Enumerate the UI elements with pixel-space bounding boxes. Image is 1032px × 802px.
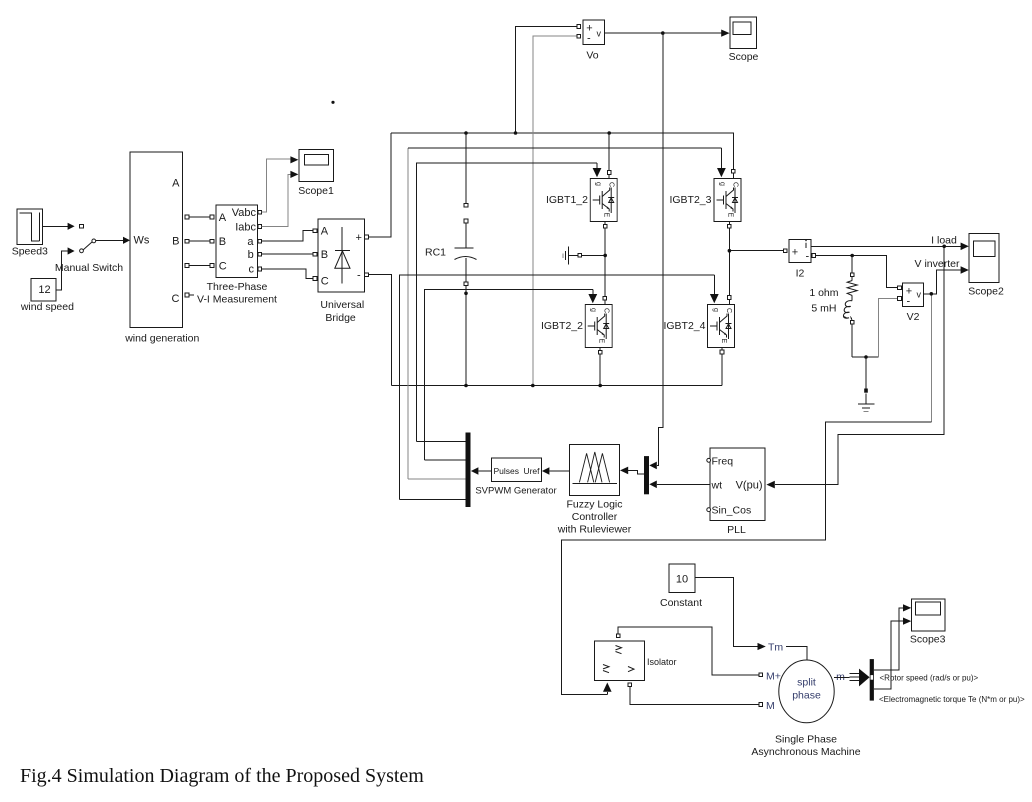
svg-text:phase: phase — [792, 690, 821, 702]
block Fuzzy Logic Controller — [557, 445, 632, 536]
svg-text:Scope: Scope — [729, 51, 759, 63]
svg-text:V2: V2 — [907, 311, 920, 323]
node load branch tap — [850, 254, 854, 258]
svg-text:-: - — [587, 33, 591, 45]
svg-text:B: B — [321, 249, 328, 261]
svg-text:M: M — [766, 700, 775, 712]
scope Scope2 — [968, 233, 1004, 297]
demux bar SVPWM pulses — [466, 433, 471, 508]
wire right leg midpoint — [728, 222, 730, 304]
node V2 output branch — [930, 292, 934, 296]
node ground tap — [864, 355, 868, 359]
node DC+ / RC1 — [464, 131, 468, 135]
wire Isolator lower port to machine M — [630, 686, 763, 706]
wire Vo signal into mux (from top) — [649, 33, 663, 469]
wire gate line IGBT1_2 (y163) — [416, 163, 601, 442]
wire Vabc to Scope1 — [262, 156, 299, 212]
wire gate line IGBT2_2 (y289) — [424, 289, 597, 460]
svg-text:v: v — [917, 290, 922, 300]
svg-text:1 ohm: 1 ohm — [809, 287, 838, 299]
stray dot — [331, 101, 334, 104]
svg-text:C: C — [172, 293, 180, 305]
svg-text:10: 10 — [676, 574, 688, 586]
transistor IGBT2_2 — [541, 297, 612, 355]
block Universal Bridge — [313, 219, 368, 324]
wire machine m bus to selector — [834, 669, 869, 687]
svg-text:A: A — [172, 178, 180, 190]
svg-text:Speed3: Speed3 — [12, 246, 48, 258]
bus selector bar — [870, 659, 874, 701]
svg-text:Controller: Controller — [572, 511, 618, 523]
node DC- / RC1 — [464, 384, 468, 388]
wire Vo- tap — [533, 34, 581, 385]
wire DC- rail up to IGBT2_4 E — [720, 348, 724, 386]
svg-text:<Rotor speed (rad/s or pu)>: <Rotor speed (rad/s or pu)> — [880, 674, 979, 683]
svg-text:V-I Measurement: V-I Measurement — [197, 294, 277, 306]
wire selector out1 to Scope3 — [874, 604, 911, 670]
voltage measurement Vo — [583, 20, 605, 62]
node I load branch — [942, 245, 946, 249]
svg-text:b: b — [248, 249, 254, 261]
svg-text:Constant: Constant — [660, 597, 702, 609]
constant block 10 — [660, 564, 702, 609]
svg-text:Scope3: Scope3 — [910, 634, 946, 646]
wire fuzzy out to Uref — [542, 467, 570, 475]
svg-text:Iabc: Iabc — [235, 222, 256, 234]
wire bar out1 to feeder — [416, 441, 465, 443]
svg-text:SVPWM Generator: SVPWM Generator — [475, 486, 556, 497]
node DC+ / IGBT1_2 C — [607, 131, 611, 135]
wire wind speed to switch lower input — [56, 247, 75, 290]
wire I2 i output to Scope2 (I load) — [811, 243, 969, 251]
wire Vo output to Scope — [604, 30, 729, 37]
ground G1 — [563, 247, 604, 265]
svg-text:Uref: Uref — [523, 466, 540, 476]
svg-text:B: B — [172, 236, 179, 248]
scope Scope3 — [910, 599, 946, 646]
wire bar out4 to feeder — [400, 498, 466, 500]
svg-text:Single Phase: Single Phase — [775, 734, 837, 746]
wire Constant to Tm — [695, 577, 766, 650]
svg-text:IGBT2_3: IGBT2_3 — [669, 194, 711, 206]
svg-text:I2: I2 — [796, 268, 805, 280]
svg-text:Vo: Vo — [586, 50, 598, 62]
wire VI a to bridge A — [262, 231, 314, 242]
mux bar fuzzy inputs — [644, 456, 649, 494]
wire bridge minus down to DC- rail — [368, 275, 391, 386]
transistor IGBT2_3 — [669, 179, 741, 229]
block PLL — [707, 448, 765, 536]
svg-text:Tm: Tm — [768, 642, 783, 654]
wire wind generation C to VI C — [189, 265, 210, 267]
svg-text:Fuzzy Logic: Fuzzy Logic — [566, 499, 622, 511]
voltage measurement V2 — [903, 283, 924, 323]
wire gate line IGBT2_3 (y148) — [408, 148, 726, 479]
svg-text:wind speed: wind speed — [20, 301, 74, 313]
svg-text:v: v — [597, 29, 602, 39]
svg-text:V inverter: V inverter — [915, 258, 960, 270]
wire DC+ rail down to IGBT2_3 C — [732, 133, 736, 178]
wire midpoint to I2 input — [729, 250, 783, 252]
wire Vo+ tap — [516, 25, 581, 134]
wire Isolator top to machine M+ — [618, 627, 762, 677]
svg-text:Ws: Ws — [134, 235, 150, 247]
wire VI b to bridge B — [262, 253, 314, 255]
wire Tm into machine — [786, 647, 807, 661]
transistor IGBT2_4 — [663, 296, 734, 348]
machine Single Phase Asynchronous Machine — [751, 660, 860, 758]
wire DC+ rail — [391, 132, 734, 134]
svg-text:A: A — [321, 226, 329, 238]
scope Scope1 — [298, 150, 334, 197]
svg-text:wind generation: wind generation — [124, 333, 199, 345]
wire V2 minus feeder — [878, 297, 901, 357]
svg-text:12: 12 — [38, 284, 50, 296]
svg-text:M+: M+ — [766, 671, 781, 683]
scope Scope — [729, 17, 759, 63]
svg-text:Manual Switch: Manual Switch — [55, 262, 123, 274]
svg-text:B: B — [219, 236, 226, 248]
wire left leg midpoint — [604, 222, 606, 304]
wire bar out3 to feeder — [408, 478, 466, 480]
svg-text:split: split — [797, 677, 816, 689]
node left midpoint — [603, 254, 607, 258]
svg-text:C: C — [219, 260, 227, 272]
wire PLL wt to mux — [649, 481, 710, 489]
svg-text:a: a — [247, 236, 254, 248]
svg-text:IGBT2_4: IGBT2_4 — [663, 320, 705, 332]
node DC- / Vo- — [531, 384, 535, 388]
wire I2 minus output — [816, 256, 902, 290]
node DC+ / Vo+ — [514, 131, 518, 135]
svg-text:-: - — [907, 296, 911, 308]
svg-text:Freq: Freq — [712, 456, 734, 468]
svg-text:IGBT2_2: IGBT2_2 — [541, 320, 583, 332]
series RL branch 1 ohm 5 mH — [809, 256, 878, 358]
svg-text:Sin_Cos: Sin_Cos — [712, 505, 752, 517]
node Vo output branch — [661, 31, 665, 35]
wire bar out2 to feeder — [424, 459, 465, 461]
block Isolator — [595, 634, 677, 695]
svg-text:c: c — [249, 263, 255, 275]
manual switch MS1 — [55, 224, 123, 274]
svg-text:-: - — [806, 251, 810, 263]
svg-text:Vabc: Vabc — [232, 207, 257, 219]
wire IGBT2_2 E to DC- rail — [599, 348, 601, 386]
svg-text:V(pu): V(pu) — [736, 479, 763, 491]
constant block wind speed (12) — [20, 279, 74, 314]
capacitor RC1 — [425, 133, 477, 386]
ground G2 — [858, 357, 875, 412]
svg-text:Asynchronous Machine: Asynchronous Machine — [751, 746, 860, 758]
node DC- / IGBT2_2 E — [598, 384, 602, 388]
svg-text:with Ruleviewer: with Ruleviewer — [557, 524, 632, 536]
svg-text:Scope2: Scope2 — [968, 286, 1004, 298]
wire wind generation A to VI A — [189, 216, 210, 218]
svg-text:A: A — [219, 212, 227, 224]
wire mux out to fuzzy — [620, 467, 644, 475]
wire I load signal to PLL (path B) — [766, 246, 944, 488]
svg-text:Pulses: Pulses — [494, 466, 520, 476]
svg-text:Three-Phase: Three-Phase — [207, 281, 268, 293]
node right midpoint — [728, 249, 732, 253]
wire DC+ rail down to IGBT1_2 C — [607, 133, 611, 178]
block SVPWM Generator — [471, 458, 557, 497]
subsystem wind generation — [124, 152, 199, 345]
caption — [20, 765, 424, 788]
wire Iabc to Scope1 — [262, 171, 299, 227]
svg-text:Bridge: Bridge — [325, 312, 356, 324]
svg-text:+: + — [356, 232, 362, 244]
wire selector out2 to Scope3 — [874, 618, 911, 690]
svg-text:-: - — [357, 270, 361, 282]
svg-text:IGBT1_2: IGBT1_2 — [546, 194, 588, 206]
svg-text:RC1: RC1 — [425, 247, 446, 259]
wire DC- rail — [392, 385, 722, 387]
svg-text:Isolator: Isolator — [647, 657, 677, 667]
svg-text:Scope1: Scope1 — [298, 185, 334, 197]
transistor IGBT1_2 — [546, 179, 617, 229]
current measurement I2 — [783, 239, 815, 279]
svg-text:Universal: Universal — [320, 299, 364, 311]
wire wind generation B to VI B — [189, 240, 210, 242]
block Three-Phase V-I Measurement — [197, 205, 277, 306]
wire V inverter signal to Isolator (path A) — [562, 294, 932, 695]
svg-text:wt: wt — [711, 479, 723, 491]
wire VI c to bridge C — [262, 269, 314, 278]
svg-text:5 mH: 5 mH — [811, 303, 836, 315]
wire bridge plus to DC+ rail — [368, 133, 391, 237]
source block Speed3 — [12, 209, 48, 258]
svg-text:+: + — [792, 247, 798, 259]
svg-text:PLL: PLL — [727, 524, 746, 536]
wire gate line IGBT2_4 (y275) — [400, 275, 719, 499]
wire V2 output to Scope2 (V inverter) — [923, 266, 969, 294]
svg-text:C: C — [321, 276, 329, 288]
wire switch to Ws — [96, 237, 130, 244]
wire Speed3 output — [43, 223, 75, 230]
svg-text:<Electromagnetic torque Te (N*: <Electromagnetic torque Te (N*m or pu)> — [879, 695, 1025, 704]
